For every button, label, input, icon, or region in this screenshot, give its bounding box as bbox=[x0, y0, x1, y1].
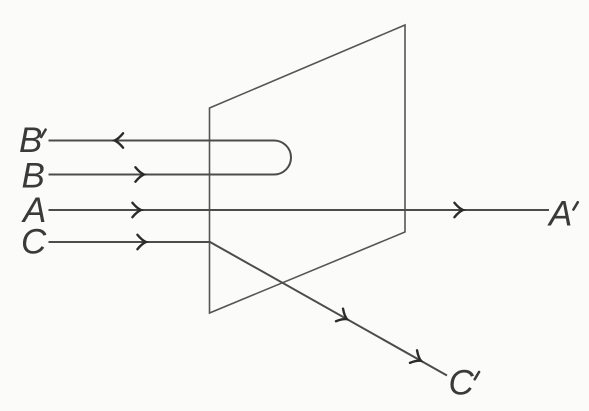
svg-text:C: C bbox=[21, 222, 47, 261]
svg-text:A: A bbox=[547, 194, 572, 233]
svg-text:C: C bbox=[449, 364, 475, 403]
svg-text:B: B bbox=[19, 121, 42, 160]
svg-text:B: B bbox=[22, 156, 45, 195]
